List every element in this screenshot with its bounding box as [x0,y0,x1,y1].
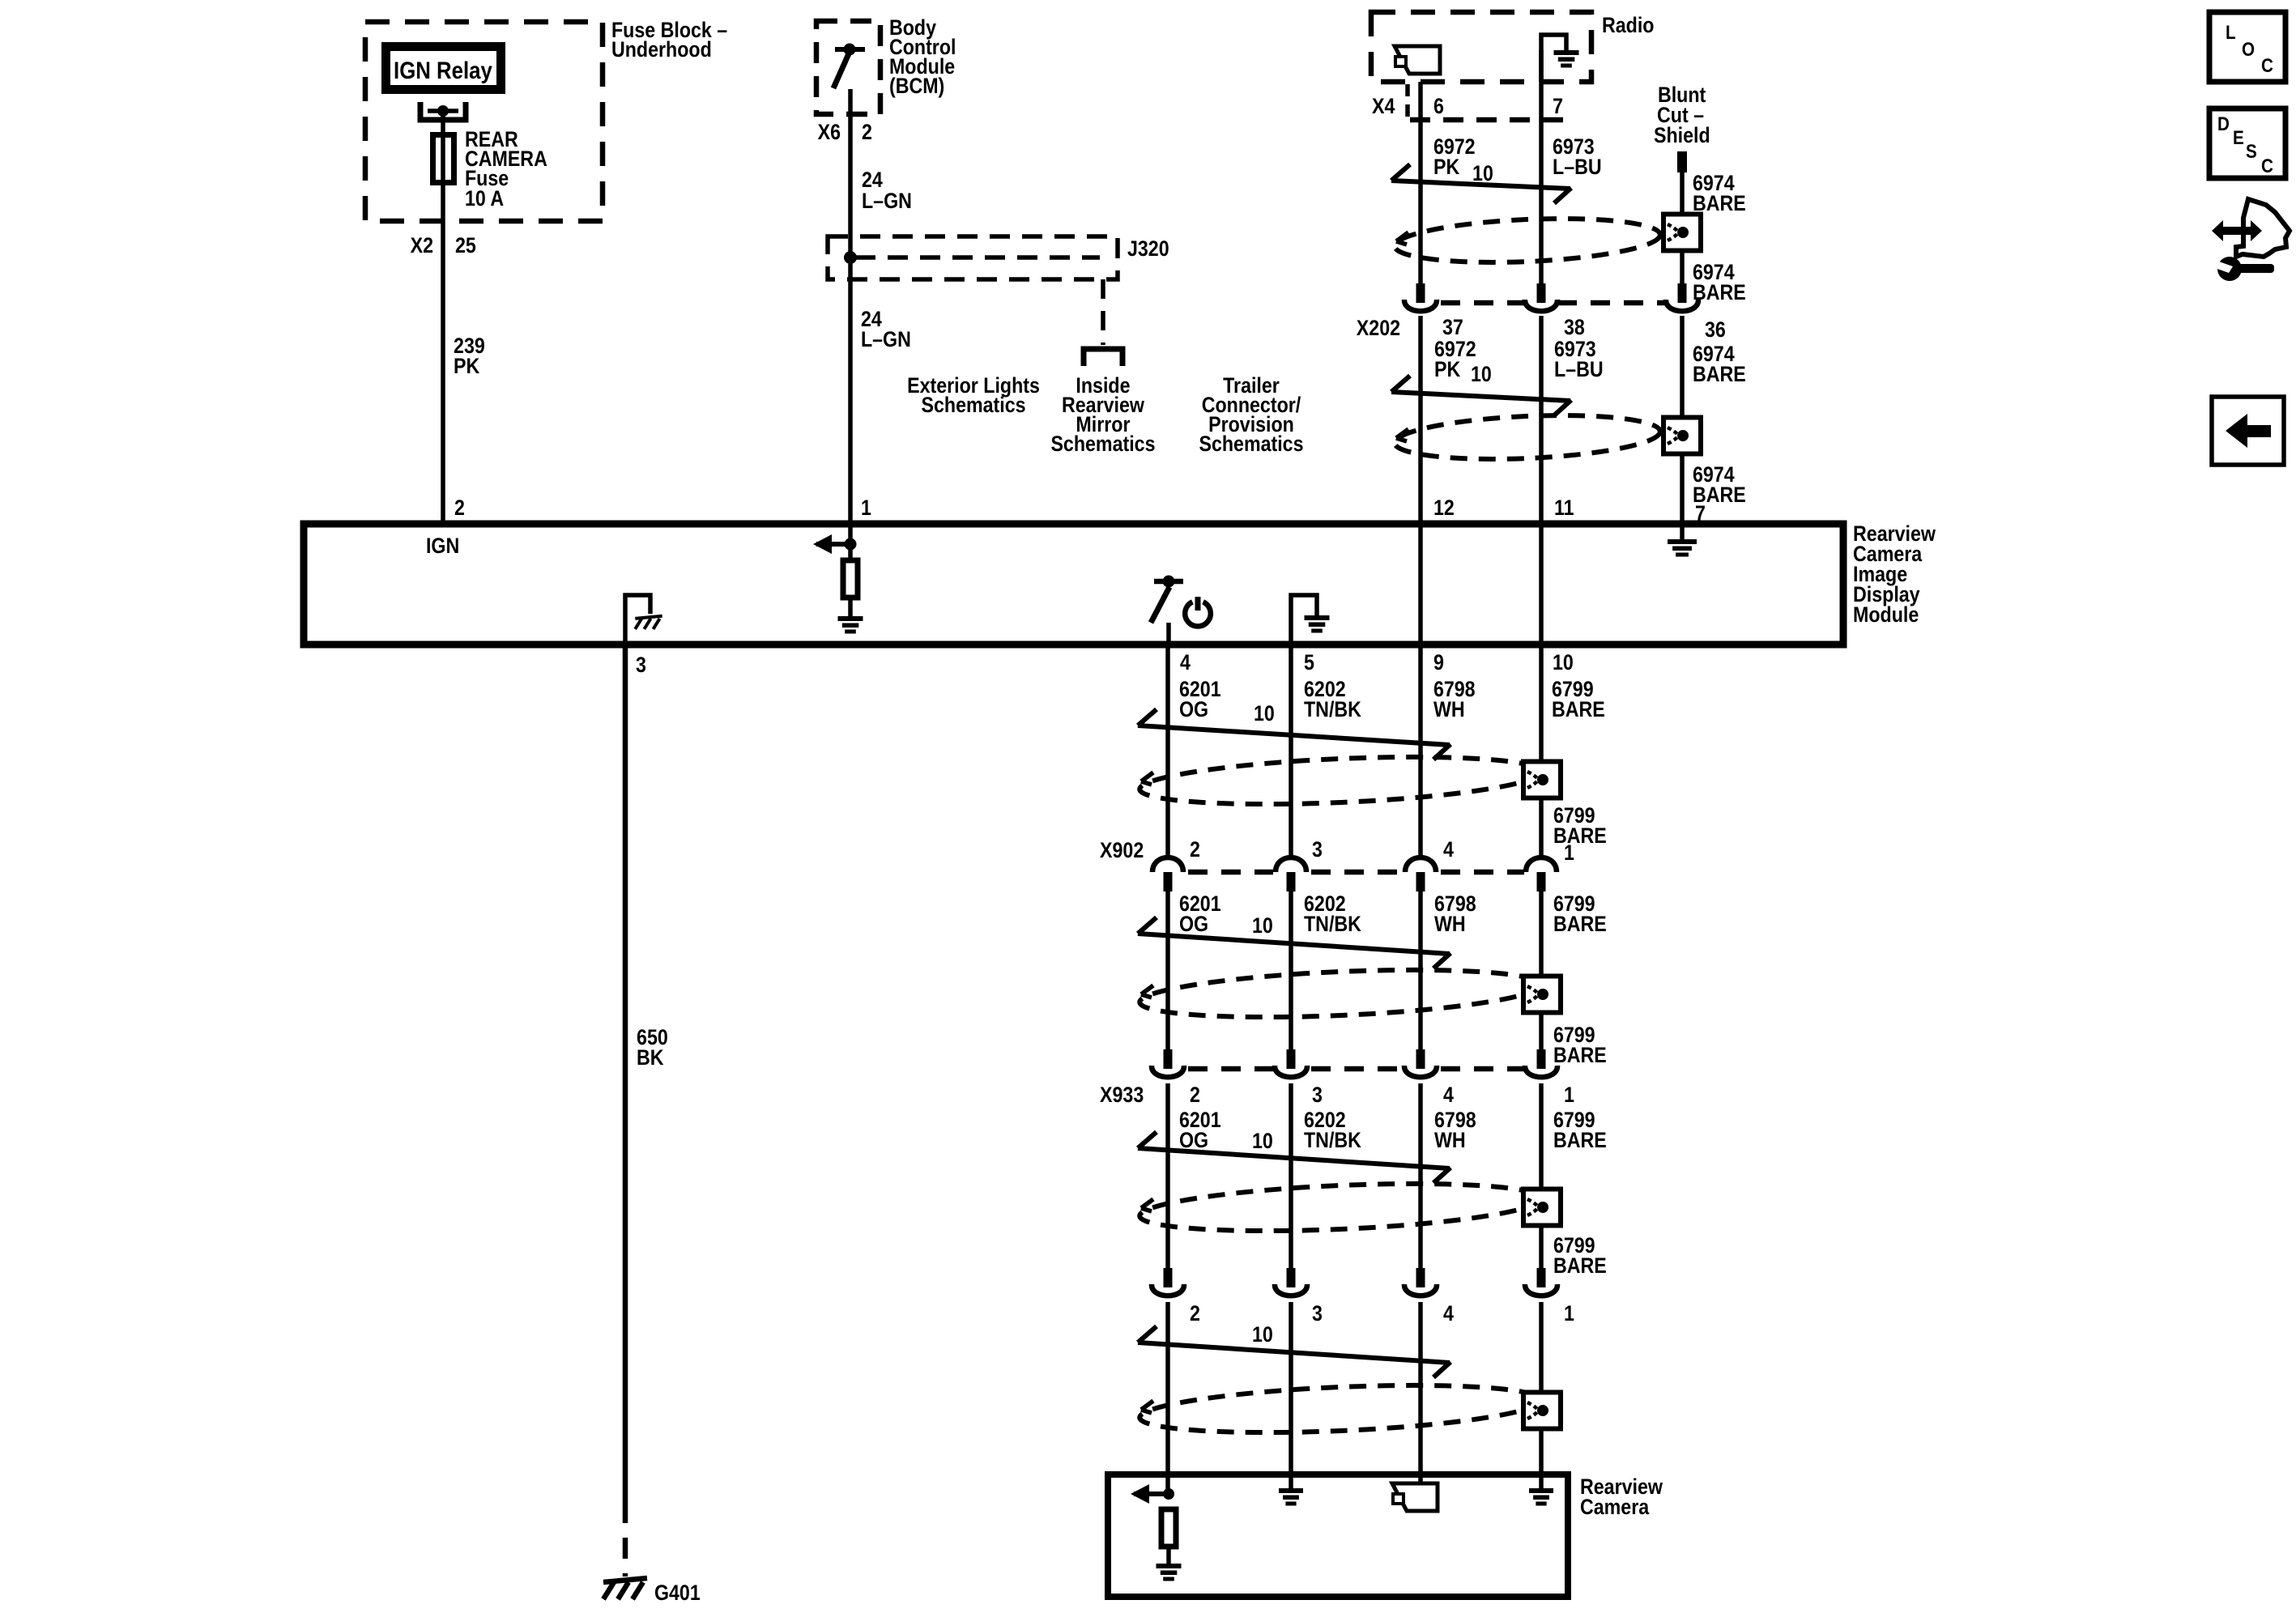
camera connector pin labels 2 3 4 1 [1190,1301,1574,1326]
module pin 12 and 11 labels [1433,496,1574,520]
off-page text inside rearview mirror schematics [1050,373,1155,456]
svg-text:IGN: IGN [426,534,459,558]
connector X4 dashed ticks [1405,84,1410,120]
svg-text:4: 4 [1180,650,1191,674]
svg-text:5: 5 [1304,650,1314,674]
wire 6799 BARE label s1b [1553,803,1607,848]
module pin labels 4 5 9 10 [1180,650,1574,674]
svg-text:36: 36 [1705,317,1726,342]
svg-text:L–BU: L–BU [1554,357,1604,381]
svg-text:BARE: BARE [1553,912,1607,936]
svg-text:L–GN: L–GN [862,189,912,213]
svg-text:X933: X933 [1100,1083,1144,1107]
module internal wire to ground [848,598,853,616]
shield ellipse A [1394,214,1661,267]
wire 6973 L-BU label upper [1553,134,1602,179]
svg-text:Schematics: Schematics [1199,432,1303,456]
shield ellipse s3 [1139,1177,1542,1238]
shield connector square s3 [1523,1189,1561,1226]
wire 6202 TN/BK label s3 [1304,1108,1361,1152]
back arrow icon box [2212,397,2284,465]
camera internal left arrow [1131,1484,1174,1504]
module internal power icon [1185,597,1211,626]
wire 6799 BARE label s3b [1553,1233,1607,1278]
BCM label [889,15,956,98]
svg-text:25: 25 [455,233,476,257]
ground G401 label [654,1581,701,1605]
svg-text:G401: G401 [654,1581,701,1605]
wire 6974 BARE label 2 [1693,260,1746,304]
svg-text:10 A: 10 A [465,186,504,211]
camera icon in camera box [1392,1483,1438,1511]
svg-text:WH: WH [1434,1128,1466,1152]
relay contact cavity [420,102,466,120]
DESC icon box [2209,109,2285,178]
radio label [1602,13,1654,37]
twisted pair arrow s2 [1138,917,1450,968]
connector X6 pin 2 labels [818,120,872,144]
svg-text:C: C [2261,155,2273,177]
dashed branch to inside rearview mirror schematics [1101,279,1105,345]
wire 6974 BARE label 3 [1693,342,1746,386]
wire 6974 BARE label 4 and pin 7 [1693,462,1746,526]
off-page text trailer connector provision schematics [1199,373,1303,456]
camera internal ground 3 [1529,1488,1553,1506]
svg-text:3: 3 [1312,1301,1323,1326]
svg-text:TN/BK: TN/BK [1304,912,1361,936]
wire 239 PK label [454,334,485,378]
svg-text:12: 12 [1433,496,1455,520]
J320 label [1127,236,1169,261]
svg-text:C: C [2261,55,2273,77]
wire 6973 L-BU X202 to module [1539,316,1544,524]
radio internal ground [1554,50,1579,68]
svg-text:1: 1 [861,496,871,520]
wire 6798 WH label s3 [1434,1108,1476,1152]
svg-text:4: 4 [1443,837,1454,862]
svg-text:10: 10 [1252,1322,1273,1347]
module internal ground pin 5 [1305,615,1330,633]
wire 6972 PK X202 to module [1418,316,1423,524]
svg-text:Camera: Camera [1580,1495,1650,1519]
svg-text:Schematics: Schematics [1050,432,1155,456]
wire 6798 WH module to X902 [1418,645,1423,858]
module pin 3 label [636,653,646,677]
svg-text:2: 2 [1190,1083,1200,1107]
module internal chassis ground pin 3 [635,616,662,629]
module internal ground hook pin 5 [1291,595,1317,645]
off-page connector bracket [1084,349,1122,366]
svg-text:1: 1 [1564,840,1574,865]
svg-text:S: S [2246,141,2257,163]
svg-text:Shield: Shield [1654,123,1710,147]
wire 6972 PK label lower [1434,337,1476,381]
svg-text:3: 3 [636,653,646,677]
svg-text:11: 11 [1554,496,1574,520]
svg-text:10: 10 [1252,1129,1273,1153]
wire BCM X6 pin 2 down [848,89,853,524]
wire 6972 PK label upper [1433,134,1476,179]
svg-text:3: 3 [1312,837,1323,862]
twisted pair arrow s3 [1138,1132,1450,1183]
svg-text:L–GN: L–GN [861,327,911,351]
svg-text:Radio: Radio [1602,13,1654,37]
wire 6201 OG X902 to X933 [1165,891,1170,1049]
wire 6798 WH X902 to X933 [1418,891,1423,1049]
radio camera display icon [1395,46,1440,74]
twisted gauge 10 label s3 [1252,1129,1273,1153]
svg-text:2: 2 [862,120,872,144]
twisted gauge 10 label s2 [1252,913,1273,938]
wire 24 L-GN label upper [862,168,912,213]
connector X902 row [1152,857,1557,891]
svg-text:PK: PK [1433,155,1459,179]
ground G401 chassis symbol [603,1578,647,1599]
connector X202 pins C D E [1404,283,1698,311]
svg-text:7: 7 [1553,94,1563,118]
camera inline connector row [1152,1268,1557,1296]
module internal resistor [843,560,858,598]
svg-text:OG: OG [1179,697,1208,721]
module internal chassis hook pin 3 [625,595,650,645]
fuse F: REAR CAMERA Fuse 10 A [433,134,454,183]
svg-text:Schematics: Schematics [922,393,1026,417]
shield connector square A [1663,215,1701,251]
svg-text:37: 37 [1442,315,1463,339]
twisted pair gauge 10 label B [1471,362,1492,386]
module pin 2 label [454,496,465,520]
back arrow icon [2226,414,2271,448]
svg-text:BARE: BARE [1552,697,1605,721]
svg-text:PK: PK [1434,357,1460,381]
wire 6202 TN/BK label s1 [1304,677,1361,721]
svg-text:WH: WH [1433,697,1465,721]
twisted pair arrow s1 [1138,709,1450,760]
svg-text:IGN Relay: IGN Relay [394,57,492,83]
wire 6972 PK radio to X202 [1418,82,1423,283]
fuse block underhood dashed box [365,22,603,221]
connector repair icon outline [2236,199,2290,257]
svg-text:10: 10 [1471,362,1492,386]
wire 6973 L-BU radio to X202 [1539,50,1544,283]
module internal ground pin 1 [838,616,863,634]
rearview camera label [1580,1474,1663,1519]
shield connector square B [1663,418,1701,454]
svg-text:9: 9 [1433,650,1444,674]
splice J320 dashed box [828,236,1118,279]
twisted pair arrow B [1391,376,1571,415]
connector X902 dashed line [1188,870,1524,875]
wire 6202 TN/BK X902 to X933 [1289,891,1293,1049]
shield ellipse B [1394,411,1661,464]
svg-text:WH: WH [1434,912,1466,936]
wire 6799 BARE label s2 [1553,891,1607,936]
LOC icon box [2209,12,2285,82]
wire 6799 BARE label s3 [1553,1108,1607,1152]
wire 6799 BARE to camera [1539,1302,1544,1488]
svg-text:L: L [2226,22,2236,44]
twisted pair arrow s4 [1138,1326,1450,1377]
wire 650 BK dashed tail [623,1502,628,1577]
shield ellipse s2 [1139,963,1542,1024]
wire 6201 OG module to X902 [1165,645,1170,858]
module internal ground pin 7 [1668,539,1697,557]
svg-text:X6: X6 [818,120,841,144]
svg-text:OG: OG [1179,912,1208,936]
shield connector square s1 [1523,762,1561,798]
wire 6798 WH label s2 [1434,891,1476,936]
svg-text:3: 3 [1312,1083,1323,1107]
svg-text:X2: X2 [411,233,433,257]
camera internal wire to ground [1166,1547,1171,1564]
module U1: rearview camera image display module box [304,524,1843,645]
X933 pin labels 2 3 4 1 [1190,1083,1574,1107]
connector X2 pin 25 labels [411,233,476,257]
svg-text:X902: X902 [1100,838,1144,862]
svg-text:10: 10 [1254,701,1275,726]
wire 6799 BARE label s1 [1552,677,1605,721]
twisted gauge 10 label s4 [1252,1322,1273,1347]
svg-text:X4: X4 [1372,94,1395,118]
wire 6799 BARE X933 down [1539,1083,1544,1270]
svg-text:10: 10 [1553,650,1574,674]
twisted pair gauge 10 label A [1472,161,1493,185]
off-page text exterior lights schematics [907,373,1040,417]
X902 pin labels 2 3 4 1 [1190,837,1574,865]
wire 6799 BARE module to X902 [1539,645,1544,858]
svg-text:BARE: BARE [1553,1043,1607,1067]
splice J320 junction dot [844,251,857,264]
wire relay to fuse [441,111,445,134]
blunt cut terminal bar [1677,151,1687,172]
wire 650 BK label [637,1025,668,1070]
connector X4 dashed line [1410,117,1575,123]
camera internal ground 2 [1279,1488,1303,1506]
wire 6202 TN/BK to camera [1289,1302,1293,1488]
svg-text:6: 6 [1433,94,1444,118]
svg-text:Module: Module [1853,602,1919,627]
wire 6201 OG to camera [1165,1302,1170,1494]
camera internal ground 1 [1157,1564,1182,1581]
svg-text:BK: BK [637,1045,664,1070]
shield connector square s4 [1523,1393,1561,1429]
svg-text:Underhood: Underhood [611,37,712,62]
twisted gauge 10 label s1 [1254,701,1275,726]
svg-text:E: E [2233,127,2244,149]
shield ellipse s4 [1139,1378,1542,1440]
radio dashed box [1371,12,1591,82]
svg-text:1: 1 [1564,1083,1574,1107]
module internal wire pin 1 [848,524,853,559]
wire 6201 OG label s2 [1179,891,1221,936]
connector repair icon wrench [2215,257,2274,281]
module name label [1853,521,1936,627]
svg-text:2: 2 [1190,1301,1200,1326]
wire 6799 BARE X902 to X933 [1539,891,1544,1049]
module internal pass wire pin 12 to 9 [1418,524,1423,645]
wire 24 L-GN label lower [861,307,911,351]
connector X202 dashed line [1441,300,1667,306]
connector X933 label [1100,1083,1144,1107]
svg-text:BARE: BARE [1553,1253,1607,1278]
wire 6202 TN/BK module to X902 [1289,645,1293,858]
shield ellipse s1 [1139,750,1542,811]
wire 6798 WH X933 down [1418,1083,1423,1270]
shield connector square s2 [1523,977,1561,1013]
wire 6201 OG X933 down [1165,1083,1170,1270]
wire 6974 BARE X202 to module [1680,316,1685,524]
connector X202 label [1357,316,1400,340]
svg-text:BARE: BARE [1693,362,1746,386]
blunt cut shield label [1654,83,1710,147]
svg-text:2: 2 [1190,837,1200,862]
svg-text:X202: X202 [1357,316,1400,340]
module pin 1 label [861,496,871,520]
wire 6973 L-BU label lower [1554,337,1604,381]
wire 6974 BARE blunt cut down [1680,172,1685,283]
wire 6798 WH label s1 [1433,677,1476,721]
svg-text:BARE: BARE [1553,823,1607,848]
connector X933 dashed line [1188,1066,1524,1072]
svg-text:2: 2 [454,496,465,520]
connector X933 row [1152,1049,1557,1077]
svg-text:BARE: BARE [1553,1128,1607,1152]
fuse block label [611,18,727,62]
camera internal resistor [1161,1509,1176,1547]
module internal pass wire pin 11 to 10 [1539,524,1544,645]
svg-text:TN/BK: TN/BK [1304,1128,1361,1152]
svg-text:10: 10 [1252,913,1273,938]
svg-text:J320: J320 [1127,236,1169,261]
module internal power switch pin 4 [1151,576,1183,645]
body control module dashed box [816,21,880,114]
BCM driver switch [833,44,865,89]
wire 6202 TN/BK X933 down [1289,1083,1293,1270]
wire 6974 BARE label 1 [1693,171,1746,215]
svg-text:(BCM): (BCM) [889,74,944,98]
wire 6798 WH to camera [1418,1302,1423,1483]
wire 650 BK [623,645,628,1502]
svg-text:TN/BK: TN/BK [1304,697,1361,721]
connector X902 label [1100,838,1144,862]
svg-text:4: 4 [1443,1301,1454,1326]
connector repair icon double arrow [2212,220,2262,241]
twisted pair arrow A [1391,164,1571,203]
svg-text:1: 1 [1564,1301,1574,1326]
module internal left arrow [813,534,857,554]
rearview camera box [1108,1474,1568,1597]
svg-text:D: D [2217,113,2230,135]
wire 6202 TN/BK label s2 [1304,891,1361,936]
X202 pin labels 37 38 36 [1442,315,1726,342]
wire fuse to X2 pin 25 [441,183,445,524]
svg-text:O: O [2242,39,2255,61]
svg-text:PK: PK [454,354,479,378]
connector X4 labels pins 6 and 7 [1372,94,1563,118]
node IGN label [426,534,459,558]
svg-text:38: 38 [1564,315,1585,339]
module internal wire pin 7 [1680,524,1685,539]
wire 6201 OG label s3 [1179,1108,1221,1152]
wire 6799 BARE label s2b [1553,1023,1607,1067]
relay K: IGN Relay box [386,47,501,90]
wire 6201 OG label s1 [1179,677,1221,721]
fuse label [465,127,547,211]
svg-text:4: 4 [1443,1083,1454,1107]
svg-text:L–BU: L–BU [1553,155,1602,179]
radio internal ground hook wire [1541,35,1566,82]
